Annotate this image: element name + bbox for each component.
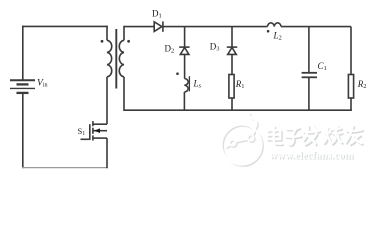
watermark text www.elecfans.com [270,151,355,163]
diode D2 [179,27,189,79]
烧 [325,127,343,145]
watermark text 电子发烧友 (vector strokes) [267,125,363,146]
svg-text:R1: R1 [235,79,245,90]
wire: bottom-left rail [22,167,108,169]
svg-text:www.elecfans.com: www.elecfans.com [270,151,354,162]
resistor R2 [348,27,353,111]
发 [305,127,321,146]
transformer dot secondary [127,40,130,43]
wire: secondary top to D1 [124,26,154,28]
inductor Ls (coupled, with core bar) [184,76,189,111]
子 [287,129,302,146]
wire: secondary bottom rail [124,109,352,111]
svg-text:D1: D1 [152,9,162,20]
resistor R1 [229,75,234,112]
MOSFET S1 [81,121,108,140]
wire: top-left rail from battery to transformer primary [22,25,108,27]
svg-text:L2: L2 [273,31,282,42]
电 [269,128,283,146]
svg-text:S1: S1 [78,126,86,137]
wire: MOSFET source to bottom rail [106,138,108,168]
L2 polarity dot [267,30,270,33]
wire: top rail D1 to L2 [163,26,268,28]
transformer secondary winding [119,26,124,111]
wire: left rail upper (battery top lead) [22,26,24,80]
inductor L2 [268,23,282,27]
wire: top rail L2 to R2 corner [281,26,351,28]
svg-text:D3: D3 [210,42,220,53]
transformer core [115,29,117,89]
svg-text:R2: R2 [357,79,367,90]
Ls polarity dot [176,72,179,75]
svg-text:Vin: Vin [37,78,47,88]
watermark logo circle (elecfans) [222,113,264,166]
transformer dot primary [101,40,104,43]
wire: left rail lower (battery bottom lead) [22,93,24,168]
svg-text:D2: D2 [165,43,175,54]
capacitor C1 [302,27,317,111]
diode D1 [154,21,163,31]
svg-text:C1: C1 [318,61,327,72]
battery Vin [10,80,35,93]
svg-text:Ls: Ls [193,79,202,90]
transformer T primary winding [107,26,112,125]
diode D3 [227,27,237,75]
友 [347,127,363,145]
